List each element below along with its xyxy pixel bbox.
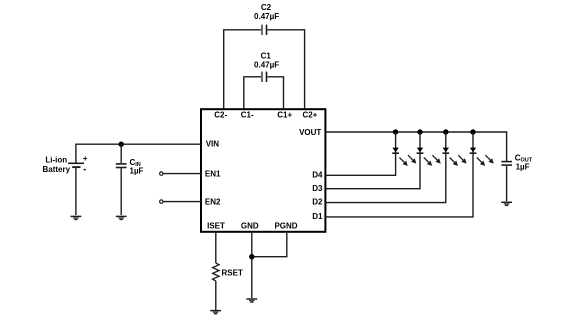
svg-text:C2+: C2+ (302, 110, 317, 119)
svg-text:0.47µF: 0.47µF (254, 12, 279, 21)
svg-text:C1: C1 (261, 52, 272, 61)
svg-text:D1: D1 (312, 212, 323, 221)
svg-text:D2: D2 (312, 198, 323, 207)
svg-text:C1-: C1- (241, 110, 254, 119)
svg-text:EN1: EN1 (205, 169, 221, 178)
svg-text:GND: GND (241, 221, 259, 230)
svg-text:VOUT: VOUT (299, 128, 321, 137)
svg-text:+: + (83, 154, 88, 163)
svg-text:1µF: 1µF (516, 163, 530, 172)
svg-text:D3: D3 (312, 184, 323, 193)
svg-text:PGND: PGND (274, 221, 297, 230)
svg-text:ISET: ISET (207, 221, 225, 230)
svg-text:RSET: RSET (222, 269, 243, 278)
svg-text:C2-: C2- (214, 110, 227, 119)
svg-text:D4: D4 (312, 170, 323, 179)
svg-text:VIN: VIN (206, 140, 220, 149)
svg-text:Li-ion: Li-ion (45, 156, 67, 165)
svg-text:0.47µF: 0.47µF (254, 60, 279, 69)
svg-text:EN2: EN2 (205, 197, 221, 206)
svg-text:C1+: C1+ (277, 110, 292, 119)
svg-text:1µF: 1µF (130, 166, 144, 175)
svg-text:Battery: Battery (43, 165, 71, 174)
svg-text:C2: C2 (261, 3, 272, 12)
